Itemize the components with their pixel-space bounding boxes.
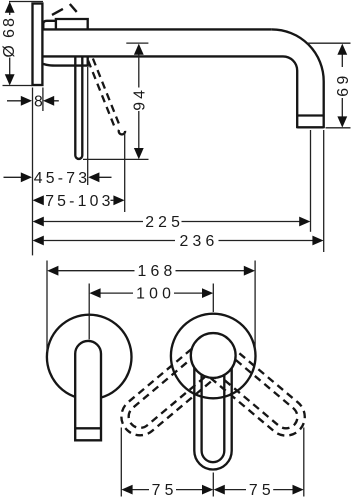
arrow 45-73 left	[21, 172, 32, 182]
ext line top	[9, 1, 43, 3]
arrow down O68	[5, 74, 15, 85]
arrow 225 right	[299, 217, 310, 227]
spout end cap	[297, 126, 324, 128]
ext line 168 left	[46, 261, 48, 353]
dashed swung handle	[88, 59, 120, 130]
escutcheon right circle	[171, 314, 256, 399]
dim line 236	[44, 240, 313, 242]
arrow 8 right	[43, 96, 54, 106]
arrow 100 left	[89, 288, 100, 298]
svg-text:75-103: 75-103	[45, 193, 113, 210]
dashed lever up stroke 1	[52, 9, 63, 15]
cartridge bump	[43, 21, 56, 29]
arrow 236 right	[312, 236, 323, 246]
arrow up O68	[5, 2, 15, 13]
svg-text:100: 100	[136, 286, 175, 303]
loop handle outer	[194, 355, 231, 470]
arrow down 94	[134, 148, 144, 159]
svg-text:45-73: 45-73	[34, 170, 90, 187]
ext tick top 94	[126, 42, 148, 44]
dim tails 8	[7, 100, 59, 102]
spout inner curve	[283, 56, 297, 128]
svg-text:Ø68: Ø68	[1, 18, 18, 58]
ext line 100 left	[88, 284, 90, 340]
arrow up 69	[337, 44, 347, 55]
ext line plate right	[42, 88, 44, 112]
arrow 75L right	[202, 485, 213, 495]
arrow 75-103 right	[113, 195, 124, 205]
handle stick	[75, 57, 82, 159]
ext line bottom 94	[83, 158, 149, 160]
arrow up 94	[134, 44, 144, 55]
wall plate	[33, 4, 43, 86]
ext line 100 right	[212, 284, 214, 313]
spout tube front	[75, 341, 101, 440]
tube aerator line	[75, 427, 101, 429]
arrow 75R left	[214, 485, 225, 495]
handle hub	[191, 333, 236, 378]
arrow 75R right	[293, 485, 304, 495]
svg-text:8: 8	[34, 93, 43, 110]
dim line 94	[138, 54, 140, 149]
ext line top 69	[308, 42, 351, 44]
aerator line	[297, 114, 324, 116]
dim line 75 right	[225, 489, 293, 491]
dim stub 75-103	[111, 199, 114, 201]
arrow 45-73 right	[88, 172, 99, 182]
dim line 168	[58, 270, 244, 272]
spout outer curve	[272, 29, 324, 128]
ext line spout outer	[323, 130, 325, 252]
ext line 75 left	[120, 428, 122, 497]
dashed lever up stroke 2	[70, 4, 77, 12]
ext line lever tip	[87, 67, 89, 185]
collar under spout	[43, 57, 88, 65]
loop handle inner	[202, 355, 225, 462]
ext line 168 right	[254, 261, 256, 353]
ext line dashed tip	[124, 133, 126, 213]
svg-text:75: 75	[249, 482, 275, 499]
spout bottom line	[43, 55, 283, 57]
arrow 168 left	[47, 266, 58, 276]
ext line spout center	[310, 130, 312, 232]
dim line 69	[341, 54, 343, 117]
arrow down 69	[337, 116, 347, 127]
svg-text:225: 225	[145, 214, 184, 231]
arrow 168 right	[244, 266, 255, 276]
svg-text:168: 168	[138, 263, 177, 280]
ext line plate left	[32, 88, 34, 256]
ext line 75 right	[303, 428, 305, 497]
arrow 75-103 left	[33, 195, 44, 205]
svg-text:236: 236	[180, 233, 219, 250]
arrow 8 left	[21, 96, 32, 106]
arrow 236 left	[33, 236, 44, 246]
lever body rect	[56, 19, 88, 30]
ext line bottom 69	[326, 127, 351, 129]
arrow 75L left	[121, 485, 132, 495]
dashed loop right	[201, 341, 312, 443]
dim line 100	[100, 292, 202, 294]
ext line bottom	[3, 85, 33, 87]
dashed loop left	[114, 341, 225, 443]
spout top line	[43, 28, 272, 30]
escutcheon left circle	[47, 315, 132, 400]
arrow 100 right	[202, 288, 213, 298]
dim line 225	[44, 221, 300, 223]
arrow 225 left	[33, 217, 44, 227]
dim tails 45-73	[4, 176, 112, 178]
svg-text:75: 75	[152, 482, 178, 499]
ext line 75 center	[212, 473, 214, 497]
dim line O68	[9, 11, 11, 76]
dim line 75 left	[132, 489, 202, 491]
